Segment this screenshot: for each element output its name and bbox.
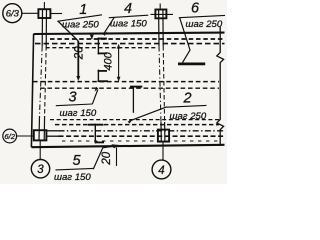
- svg-text:400: 400: [103, 51, 115, 70]
- wire: axis 3 grid pair left line: [40, 46, 43, 116]
- wire: axis line Б/3 from bubble to column: [22, 12, 38, 14]
- dimension 20 top: tick arrow at beam edge: [91, 35, 93, 39]
- wire: axis line Б/3 through column K2: [151, 13, 174, 15]
- svg-text:4: 4: [158, 165, 164, 177]
- wire: axis 3 grid pair right line: [45, 46, 47, 116]
- arrow of leader 5: [111, 144, 120, 148]
- arrow of leader 4: [103, 31, 107, 36]
- shelf of position 6: [179, 15, 225, 17]
- wire: axis 4 grid pair right line solid segment through column K2 and beam: [162, 10, 164, 47]
- svg-text:20: 20: [101, 151, 113, 165]
- wire: axis 3 stub above column K1: [43, 2, 45, 9]
- svg-text:3: 3: [68, 89, 76, 105]
- leader of position 3: [92, 90, 98, 105]
- beam Б/2 edge stub 2 at column K3 (solid): [46, 135, 58, 137]
- slab panel mid line (dashed): [33, 81, 219, 83]
- shelf of position 3: [56, 104, 93, 106]
- svg-text:шаг 250: шаг 250: [186, 19, 223, 30]
- shelf of position 2: [167, 105, 207, 107]
- beam Б/2 edge stub at column K3 (solid): [46, 130, 58, 132]
- arrow of leader 2: [128, 119, 133, 124]
- shelf of position 4: [109, 15, 149, 18]
- shelf of position 5: [56, 168, 94, 170]
- beam Б/3 hidden edge 2 (dashed): [35, 43, 225, 45]
- wire: axis 3 grid pair left line solid segment through column K1 and beam: [41, 9, 43, 46]
- wire: axis 4 grid pair right line: [163, 46, 164, 122]
- arrow of leader 3: [95, 87, 99, 92]
- axis bubble 3: [31, 160, 49, 178]
- wire: axis 4 stub above column K2: [159, 4, 161, 10]
- wire: axis line Б/2 from bubble to column: [17, 135, 34, 137]
- svg-text:6/2: 6/2: [4, 132, 15, 141]
- arrow of leader 1 (down): [76, 76, 80, 81]
- wire: axis 4 grid pair solid segment through beam Б/2 and column K4: [161, 122, 165, 141]
- beam Б/3 top chord (solid): [34, 33, 225, 34]
- wire: axis 3 grid pair solid segment through beam Б/2 and column K3: [39, 116, 45, 140]
- svg-text:3: 3: [37, 164, 44, 176]
- leader of position 2: [129, 107, 167, 121]
- svg-text:шаг 150: шаг 150: [60, 108, 97, 119]
- svg-text:шаг 250: шаг 250: [62, 20, 99, 31]
- rebar bracket B (bar end hooks, mid panel): [98, 70, 108, 82]
- slab panel outline top (dashed): [46, 47, 158, 49]
- slab edge left (solid): [31, 34, 33, 147]
- column K4 at Б/2 x 4: [158, 130, 169, 142]
- column K2 at Б/3 x 4: [155, 10, 166, 19]
- svg-text:6: 6: [191, 0, 200, 16]
- slab panel mid line 2 (dashed): [40, 87, 219, 89]
- shelf of position 1: [57, 15, 102, 21]
- svg-text:шаг 150: шаг 150: [54, 172, 91, 183]
- svg-text:20: 20: [74, 46, 86, 60]
- wire: axis 3 grid pair right line solid segment through column K1 and beam: [45, 9, 47, 46]
- dimension 20 bottom: extension line: [116, 148, 118, 167]
- beam Б/2 bottom chord (solid): [31, 145, 224, 147]
- wire: axis 4 grid pair left line: [159, 46, 161, 122]
- break line right border with zigzags: [217, 27, 224, 147]
- leader of position 6: [180, 18, 190, 63]
- rebar bar 2 vertical with top hook: [130, 86, 142, 113]
- axis bubble Б/2: [3, 129, 17, 143]
- beam Б/2 edge 2 (dashed): [59, 135, 225, 137]
- axis bubble Б/3: [3, 4, 22, 23]
- column K3 at Б/2 x 3: [34, 130, 47, 140]
- wire: axis 4 stem to bubble: [162, 142, 164, 160]
- beam Б/2 edge (dash-dot): [59, 130, 225, 132]
- svg-text:5: 5: [72, 153, 81, 169]
- leader of position 4: [104, 17, 114, 33]
- column K1 at Б/3 x 3: [38, 9, 50, 18]
- beam Б/2 hidden edge (dashed): [50, 119, 219, 121]
- wire: axis line Б/3 stub right of column: [51, 13, 62, 15]
- rebar bar 6 (thick horizontal): [178, 63, 205, 66]
- svg-text:шаг 250: шаг 250: [170, 111, 207, 122]
- wire: axis 3 stem to bubble: [39, 141, 41, 160]
- dimension 400 line with arrows: [118, 45, 120, 81]
- beam Б/2 hidden edge 2 (dashed): [55, 124, 219, 126]
- axis bubble 4: [152, 160, 171, 179]
- leader of position 1: [58, 21, 78, 41]
- beam Б/3 hidden edge (dashed): [50, 38, 225, 40]
- svg-text:4: 4: [124, 1, 132, 17]
- leader of position 5: [93, 146, 112, 169]
- wire: axis 4 grid pair left line solid segment through column K2 and beam: [158, 10, 160, 47]
- svg-text:1: 1: [79, 2, 87, 18]
- svg-text:2: 2: [182, 90, 191, 106]
- beam Б/2 sparse hidden line (dashed): [62, 140, 218, 142]
- rebar bracket C (bar end hooks, bottom beam): [88, 124, 104, 144]
- svg-text:шаг 150: шаг 150: [110, 18, 147, 29]
- rebar bracket A (bar end hooks, top panel): [98, 38, 107, 55]
- svg-text:6/3: 6/3: [6, 9, 20, 20]
